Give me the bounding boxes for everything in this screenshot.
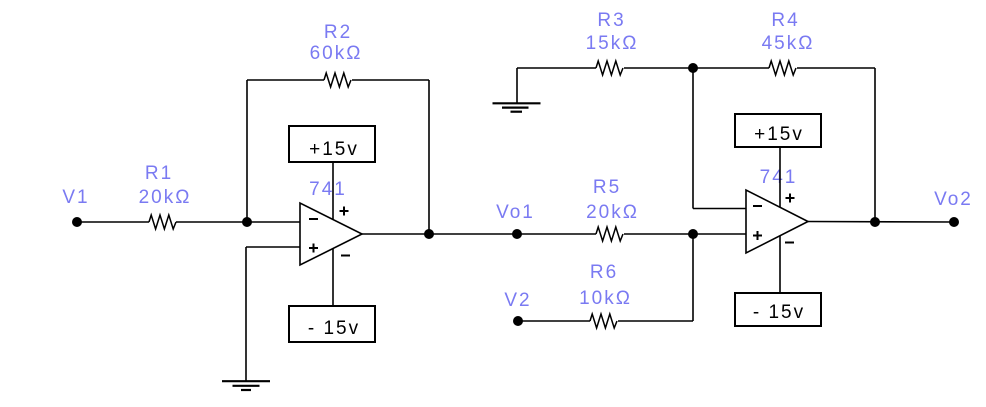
svg-text:R6: R6 [590, 262, 618, 283]
svg-text:R4: R4 [771, 10, 799, 31]
resistor R6 [590, 314, 617, 328]
resistor R2 [324, 73, 351, 87]
svg-text:Vo1: Vo1 [496, 202, 535, 223]
wire U1 non-inverting input horizontal [246, 246, 300, 248]
svg-text:20kΩ: 20kΩ [586, 202, 639, 223]
svg-text:+15v: +15v [754, 124, 804, 145]
wire R5 to junction B [624, 233, 746, 235]
op-amp U2 V+ pin plus symbol [786, 194, 795, 203]
svg-text:45kΩ: 45kΩ [762, 33, 815, 54]
wire V2 to R6 [518, 320, 590, 322]
op-amp U1 triangle [300, 203, 362, 265]
svg-text:60kΩ: 60kΩ [310, 43, 363, 64]
svg-text:741: 741 [760, 167, 798, 188]
svg-text:R5: R5 [593, 177, 621, 198]
wire U1 V+ power pin [332, 162, 334, 220]
power box -15v (U1) [289, 306, 375, 342]
wire R6 to junction B column [618, 320, 693, 322]
svg-text:15kΩ: 15kΩ [586, 33, 639, 54]
ground (left, below U1 + input) [222, 381, 270, 390]
svg-text:741: 741 [309, 179, 347, 200]
svg-text:10kΩ: 10kΩ [579, 288, 632, 309]
junction node B dot (R5 / R6 / U2+) [688, 229, 698, 239]
resistor R4 [769, 61, 796, 75]
svg-text:V2: V2 [504, 290, 531, 311]
wire U2 V+ power pin [779, 147, 781, 208]
wire V1 to R1 [77, 221, 149, 223]
svg-text:R3: R3 [597, 10, 625, 31]
wire ground stub to R3 (top left of second stage) [517, 67, 596, 69]
op-amp U2 inverting pin minus symbol [753, 205, 762, 207]
wire U1 output to Vo1 to U2 non-inverting input [362, 233, 596, 235]
op-amp U1 V+ pin plus symbol [340, 207, 349, 216]
node Vo1 dot [512, 229, 522, 239]
wire ground stub vertical [516, 68, 518, 103]
wire U1 V- power pin [332, 249, 334, 307]
svg-text:- 15v: - 15v [308, 318, 360, 339]
node V2 terminal dot [513, 316, 523, 326]
wire feedback right vertical (R2 down to U1 output) [428, 80, 430, 234]
svg-text:+15v: +15v [309, 139, 359, 160]
power box +15v (U2) [735, 114, 821, 147]
wire U2 inverting input horizontal [693, 208, 746, 210]
svg-text:20kΩ: 20kΩ [139, 187, 192, 208]
wire U2 V- power pin [779, 236, 781, 293]
wire feedback top right segment [352, 79, 429, 81]
wire feedback left vertical (node A up to R2) [246, 80, 248, 222]
ground (right, at R3) [493, 103, 541, 111]
svg-text:Vo2: Vo2 [934, 189, 973, 210]
op-amp U1 inverting pin minus symbol [309, 218, 318, 220]
resistor R1 [149, 215, 176, 229]
op-amp U1 V- pin minus symbol [341, 255, 350, 257]
op-amp U2 non-inverting pin plus symbol [753, 231, 762, 240]
power box +15v (U1) [289, 126, 375, 162]
node Vo2 terminal dot [949, 217, 959, 227]
svg-text:V1: V1 [62, 187, 89, 208]
wire junction C down to U2 inverting input [692, 68, 694, 209]
svg-text:R2: R2 [324, 22, 352, 43]
op-amp U1 non-inverting pin plus symbol [309, 244, 318, 253]
junction dot U2 output / feedback [870, 217, 880, 227]
wire junction B down to V2 row [692, 234, 694, 321]
resistor R3 [596, 61, 623, 75]
junction node A dot (R1 / R2 / U1- ) [242, 217, 252, 227]
resistor R5 [596, 227, 623, 241]
wire feedback right vertical (R4 down to U2 output) [874, 68, 876, 222]
op-amp U2 triangle [746, 190, 808, 253]
op-amp U2 V- pin minus symbol [785, 242, 794, 244]
power box -15v (U2) [735, 293, 821, 326]
node V1 terminal dot [72, 217, 82, 227]
wire R1 to op-amp U1 inverting input [176, 221, 300, 223]
wire feedback top left segment [247, 79, 324, 81]
junction dot U1 output / feedback [424, 229, 434, 239]
wire U1 non-inverting input down to ground [245, 247, 247, 381]
wire U2 output to Vo2 [808, 221, 954, 224]
svg-text:R1: R1 [145, 163, 173, 184]
wire R4 to right feedback corner [797, 67, 875, 69]
svg-text:- 15v: - 15v [753, 302, 805, 323]
wire R3 to junction C [624, 67, 769, 69]
junction node C dot (R3 / R4 / U2-) [688, 63, 698, 73]
